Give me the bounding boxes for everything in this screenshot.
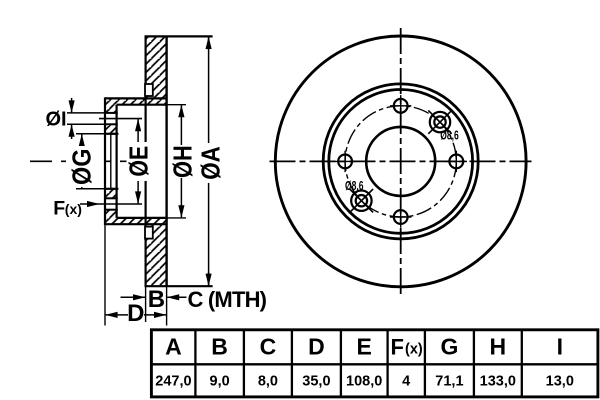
left view axis centerline [30, 160, 145, 162]
rotor left face [145, 36, 147, 286]
bolt hole 1 bottom edge [104, 123, 118, 125]
svg-text:Ø8,6: Ø8,6 [345, 179, 364, 193]
bore inner vertical line [110, 134, 112, 189]
hat edge ring inner [329, 89, 473, 233]
svg-text:H: H [489, 334, 506, 360]
svg-text:E: E [357, 334, 372, 360]
hat wall top outer [105, 97, 167, 99]
svg-text:G: G [440, 334, 458, 360]
vertical centerline [400, 28, 402, 295]
dimension ØE [137, 119, 139, 203]
svg-text:ØG: ØG [68, 149, 96, 185]
outer circle [275, 36, 526, 287]
svg-text:ØH: ØH [169, 145, 198, 178]
svg-text:71,1: 71,1 [435, 374, 463, 390]
rotor right face extension down [166, 286, 168, 325]
bolt hole top [390, 95, 411, 116]
rotor outline [145, 36, 213, 325]
hat wall top inner extension (ØH) [167, 104, 186, 106]
svg-text:B: B [211, 334, 228, 360]
hat wall bottom inner extension (ØH) [167, 217, 186, 219]
svg-text:133,0: 133,0 [480, 374, 516, 390]
bolt hole 2 bottom edge [104, 209, 118, 211]
special hole bottom-left (Ø8,6) [350, 189, 373, 212]
svg-text:ØA: ØA [197, 146, 226, 180]
horizontal centerline [270, 160, 532, 162]
hatch rotor top [146, 36, 167, 98]
center bore circle [366, 127, 435, 196]
svg-text:I: I [557, 334, 563, 360]
dimension ØG [76, 134, 105, 189]
hatch hat wall top [106, 98, 167, 104]
svg-text:Ø8,6: Ø8,6 [440, 128, 459, 142]
dimension C (MTH) arrow [167, 296, 186, 298]
dimension ØI [67, 98, 104, 139]
label ØG (rotated) [67, 146, 97, 187]
svg-text:C (MTH): C (MTH) [188, 287, 267, 312]
svg-text:4: 4 [402, 374, 410, 390]
svg-text:F: F [391, 335, 404, 360]
dimension D [106, 314, 128, 316]
svg-text:(x): (x) [65, 201, 82, 217]
bore top edge [104, 133, 118, 135]
hatch hat wall bottom [106, 218, 167, 224]
hat wall bottom outer [105, 223, 167, 225]
notch bottom [145, 227, 153, 239]
hat wall bottom inner [117, 217, 167, 219]
label ØE (rotated) [127, 142, 149, 181]
dimension B [121, 296, 146, 298]
flange left face [104, 97, 106, 225]
bolt hole 1 top edge [104, 112, 118, 114]
bolt hole bottom [390, 206, 411, 227]
hat + flange outline [104, 97, 186, 325]
bolt hole 2 top edge [104, 197, 118, 199]
bolt hole centerline bottom [99, 203, 142, 205]
svg-text:C: C [260, 334, 277, 360]
svg-text:35,0: 35,0 [302, 374, 330, 390]
svg-text:D: D [127, 300, 144, 327]
dimension ØA [208, 37, 210, 286]
svg-text:D: D [308, 334, 325, 360]
svg-text:B: B [148, 286, 165, 313]
svg-text:ØI: ØI [46, 109, 67, 131]
bolt hole centerline top [99, 118, 142, 120]
bolt hole right [446, 151, 467, 172]
notch top [145, 84, 153, 96]
hatch rotor bottom [146, 224, 167, 286]
dimension ØH [180, 105, 182, 217]
bolt circle (dashed) [345, 106, 456, 217]
svg-text:8,0: 8,0 [258, 374, 278, 390]
flange left face extension down (D) [104, 225, 106, 325]
rotor left face extension down (B) [145, 286, 147, 322]
rotor top edge + ØA top extension [145, 35, 213, 37]
svg-text:108,0: 108,0 [346, 374, 382, 390]
table values [155, 374, 574, 390]
svg-text:247,0: 247,0 [155, 374, 191, 390]
svg-text:ØE: ØE [125, 146, 155, 177]
svg-text:(x): (x) [405, 342, 423, 358]
table headers [165, 334, 563, 360]
special hole top-right (Ø8,6) [428, 110, 451, 133]
hatch flange blocks [106, 105, 117, 113]
label ØA (rotated) [198, 143, 220, 183]
svg-text:13,0: 13,0 [546, 374, 574, 390]
bolt hole left [334, 151, 355, 172]
hat wall top inner [117, 104, 167, 106]
svg-text:A: A [165, 334, 182, 360]
flange right face [115, 105, 117, 218]
rotor right face [165, 36, 167, 286]
hat edge ring outer [323, 84, 478, 239]
rotor bottom edge + ØA bottom extension [145, 285, 213, 287]
svg-text:F: F [53, 197, 65, 219]
bore bottom edge [104, 188, 118, 190]
svg-text:9,0: 9,0 [210, 374, 230, 390]
